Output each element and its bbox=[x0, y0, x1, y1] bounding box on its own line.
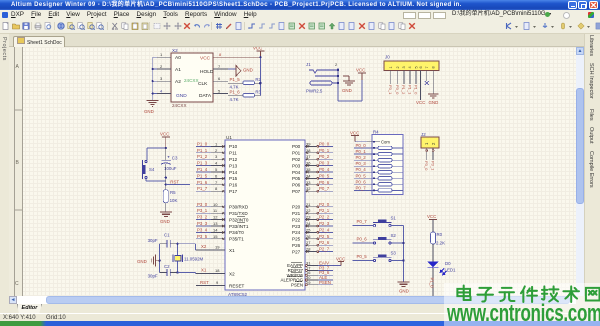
svg-text:P1_0: P1_0 bbox=[413, 85, 418, 95]
svg-text:A2: A2 bbox=[175, 79, 181, 85]
power GND (X2 HOLD pin7) bbox=[228, 68, 236, 70]
resistor R5 10K bbox=[163, 190, 177, 203]
svg-text:P22: P22 bbox=[292, 217, 301, 222]
svg-text:R5: R5 bbox=[170, 190, 176, 195]
power GND (J0 pin8) bbox=[428, 94, 439, 98]
capacitor C1 30pF bbox=[148, 233, 178, 248]
switch S2 with net label P0_6 bbox=[353, 233, 404, 244]
svg-text:VCC: VCC bbox=[350, 131, 359, 136]
svg-text:2: 2 bbox=[396, 66, 400, 68]
svg-text:1: 1 bbox=[160, 52, 163, 57]
svg-text:P3_4: P3_4 bbox=[197, 227, 208, 232]
svg-text:24CXX: 24CXX bbox=[184, 78, 199, 83]
svg-text:P23: P23 bbox=[292, 224, 301, 229]
svg-text:7: 7 bbox=[215, 180, 218, 185]
U1 active-low overlines bbox=[237, 216, 302, 281]
wire below LED with net label bbox=[432, 268, 434, 296]
svg-text:P3_1: P3_1 bbox=[197, 208, 208, 213]
switch S4 bbox=[143, 160, 166, 181]
resistor network R4 bbox=[367, 130, 403, 195]
svg-text:6: 6 bbox=[218, 76, 221, 81]
svg-text:X2: X2 bbox=[229, 271, 235, 276]
wire crystal to X2 pin bbox=[178, 273, 197, 274]
svg-text:VCC: VCC bbox=[427, 214, 436, 219]
svg-text:PSEN: PSEN bbox=[291, 282, 303, 287]
svg-text:6: 6 bbox=[419, 66, 423, 68]
svg-text:P30/RXD: P30/RXD bbox=[229, 205, 249, 210]
capacitor C3 100uF bbox=[161, 148, 178, 190]
svg-text:P0_5: P0_5 bbox=[357, 254, 368, 259]
switch S3 with net label P0_5 bbox=[353, 251, 404, 262]
svg-text:1: 1 bbox=[215, 141, 218, 146]
resistor R2 4.7K bbox=[228, 77, 262, 90]
svg-text:P2_6: P2_6 bbox=[319, 240, 330, 245]
svg-text:12: 12 bbox=[213, 215, 218, 220]
svg-text:4: 4 bbox=[215, 161, 218, 166]
svg-text:P33/INT1: P33/INT1 bbox=[229, 224, 249, 229]
svg-text:P3_1: P3_1 bbox=[388, 85, 393, 95]
MCU U1 AT89C52 bbox=[225, 135, 305, 297]
svg-text:P2_4: P2_4 bbox=[319, 227, 330, 232]
svg-text:P03: P03 bbox=[292, 163, 301, 168]
svg-text:11.0592M: 11.0592M bbox=[184, 256, 204, 261]
svg-text:P1_1: P1_1 bbox=[197, 148, 208, 153]
svg-text:P0_5: P0_5 bbox=[319, 173, 330, 178]
svg-text:P04: P04 bbox=[292, 170, 301, 175]
svg-text:Com: Com bbox=[381, 140, 390, 145]
svg-text:P35/T1: P35/T1 bbox=[229, 237, 244, 242]
svg-text:S1: S1 bbox=[391, 216, 397, 221]
svg-text:P3_3: P3_3 bbox=[197, 221, 208, 226]
U1 pin edge markers bbox=[222, 145, 308, 253]
svg-text:VCC: VCC bbox=[356, 68, 365, 73]
svg-text:P1_5: P1_5 bbox=[230, 77, 241, 82]
wire LED branch bbox=[432, 220, 434, 233]
svg-text:30pF: 30pF bbox=[148, 238, 158, 243]
svg-text:9: 9 bbox=[216, 280, 219, 285]
svg-text:4.7K: 4.7K bbox=[230, 97, 239, 102]
svg-text:P11: P11 bbox=[229, 151, 237, 156]
svg-text:P0_3: P0_3 bbox=[356, 161, 367, 166]
svg-text:P3_5: P3_5 bbox=[197, 234, 208, 239]
svg-text:5: 5 bbox=[215, 167, 218, 172]
svg-text:GND: GND bbox=[137, 259, 147, 264]
svg-text:P00: P00 bbox=[292, 144, 301, 149]
svg-text:P0_0: P0_0 bbox=[319, 141, 330, 146]
U1 pin 19 X1 bbox=[196, 249, 225, 251]
svg-text:P0_1: P0_1 bbox=[319, 148, 330, 153]
svg-text:P2_2: P2_2 bbox=[319, 215, 330, 220]
svg-text:3: 3 bbox=[215, 154, 218, 159]
R4 resistor elements and net labels P0_0-P0_7 bbox=[354, 146, 403, 192]
power VCC (R4 Com) bbox=[351, 136, 359, 142]
svg-text:P1_3: P1_3 bbox=[197, 161, 208, 166]
svg-text:GND: GND bbox=[144, 109, 154, 114]
power VCC (EA pin) bbox=[333, 265, 341, 267]
svg-text:P3_1: P3_1 bbox=[430, 161, 435, 171]
svg-text:15: 15 bbox=[213, 234, 218, 239]
resistor R0 2.2K bbox=[431, 232, 446, 246]
svg-text:14: 14 bbox=[213, 227, 218, 232]
svg-text:5: 5 bbox=[218, 88, 221, 93]
svg-text:4: 4 bbox=[408, 66, 412, 68]
svg-text:P2_5: P2_5 bbox=[319, 234, 330, 239]
svg-text:VCC: VCC bbox=[253, 47, 262, 51]
svg-text:6: 6 bbox=[215, 173, 218, 178]
svg-text:J1: J1 bbox=[306, 62, 311, 67]
svg-text:P3_0: P3_0 bbox=[197, 202, 208, 207]
svg-text:P3_0: P3_0 bbox=[424, 161, 429, 171]
svg-text:P21: P21 bbox=[292, 211, 301, 216]
svg-text:2.2K: 2.2K bbox=[436, 241, 445, 246]
svg-text:R0: R0 bbox=[437, 232, 443, 237]
svg-text:P1_0: P1_0 bbox=[197, 141, 208, 146]
svg-text:P0_4: P0_4 bbox=[356, 167, 367, 172]
svg-text:VCC: VCC bbox=[160, 132, 169, 137]
svg-text:PWR2.5: PWR2.5 bbox=[306, 89, 323, 94]
svg-text:P1_1: P1_1 bbox=[407, 85, 412, 95]
svg-text:P0_6: P0_6 bbox=[356, 179, 367, 184]
U1 pins 39-32 P00-P07 with net labels P0_0-P0_7 bbox=[305, 146, 318, 191]
svg-text:P3_0: P3_0 bbox=[395, 85, 400, 95]
svg-text:8: 8 bbox=[215, 186, 218, 191]
svg-text:P1_5: P1_5 bbox=[197, 173, 208, 178]
svg-text:P0_7: P0_7 bbox=[319, 186, 330, 191]
svg-text:PSEN: PSEN bbox=[319, 280, 331, 285]
svg-text:P2_1: P2_1 bbox=[319, 208, 330, 213]
ground GND (R5) bbox=[165, 203, 167, 212]
svg-text:P01: P01 bbox=[292, 151, 301, 156]
svg-text:P12: P12 bbox=[229, 157, 238, 162]
wire reset top bbox=[147, 148, 166, 160]
svg-text:P34/T0: P34/T0 bbox=[229, 230, 244, 235]
svg-text:19: 19 bbox=[215, 245, 220, 250]
svg-text:X1: X1 bbox=[201, 268, 207, 273]
J0 pin wires and net labels bbox=[391, 71, 434, 101]
svg-text:P05: P05 bbox=[292, 176, 301, 181]
svg-text:P0_0: P0_0 bbox=[356, 143, 367, 148]
svg-text:X2: X2 bbox=[201, 244, 207, 249]
svg-text:10K: 10K bbox=[170, 198, 178, 203]
svg-text:7: 7 bbox=[425, 66, 429, 68]
svg-text:C2: C2 bbox=[164, 264, 170, 269]
wire crystal left bus bbox=[159, 244, 161, 273]
svg-text:P0_6: P0_6 bbox=[357, 236, 368, 241]
svg-text:P1_4: P1_4 bbox=[197, 167, 208, 172]
svg-text:P0_2: P0_2 bbox=[319, 154, 330, 159]
svg-text:P2_7: P2_7 bbox=[319, 247, 330, 252]
svg-text:24CXX: 24CXX bbox=[172, 103, 187, 108]
svg-text:3: 3 bbox=[160, 76, 163, 81]
svg-text:S4: S4 bbox=[149, 167, 155, 172]
svg-text:GND: GND bbox=[160, 219, 170, 224]
svg-text:P0_4: P0_4 bbox=[319, 167, 330, 172]
X2 pins 1-4 bbox=[157, 57, 171, 93]
svg-text:P0_2: P0_2 bbox=[356, 155, 367, 160]
svg-text:2: 2 bbox=[215, 148, 218, 153]
svg-text:P0_7: P0_7 bbox=[357, 219, 368, 224]
svg-text:P1_6: P1_6 bbox=[230, 90, 241, 95]
svg-text:P1_7: P1_7 bbox=[197, 186, 208, 191]
svg-text:D0: D0 bbox=[445, 261, 451, 266]
svg-text:P17: P17 bbox=[229, 189, 238, 194]
svg-text:P27: P27 bbox=[292, 249, 301, 254]
U1 pins 10-15 P30-P35 with net labels P3_0-P3_5 bbox=[211, 207, 225, 239]
svg-text:P07: P07 bbox=[292, 189, 301, 194]
crystal Y1 11.0592M bbox=[173, 244, 203, 273]
switch S1 with net label P0_7 bbox=[353, 216, 404, 227]
svg-text:P20: P20 bbox=[292, 205, 301, 210]
svg-text:R4: R4 bbox=[373, 130, 379, 135]
svg-text:P14: P14 bbox=[229, 170, 238, 175]
svg-text:LED1: LED1 bbox=[445, 268, 457, 273]
svg-text:8: 8 bbox=[219, 52, 222, 57]
svg-text:P1_0: P1_0 bbox=[430, 278, 435, 289]
svg-text:VCC: VCC bbox=[200, 56, 211, 62]
wire crystal to X1 pin bbox=[178, 244, 197, 250]
svg-text:S3: S3 bbox=[391, 251, 397, 256]
connector J0 8-pin header bbox=[384, 55, 439, 71]
svg-text:P1_2: P1_2 bbox=[401, 85, 406, 95]
svg-text:P31/TXD: P31/TXD bbox=[229, 211, 248, 216]
svg-text:P0_5: P0_5 bbox=[356, 173, 367, 178]
U1 pins 1-8 P10-P17 with net labels P1_0-P1_7 bbox=[211, 146, 225, 191]
power VCC (J1) bbox=[358, 73, 366, 80]
svg-text:P1_2: P1_2 bbox=[197, 154, 208, 159]
net label RST bbox=[165, 176, 167, 178]
svg-text:P13: P13 bbox=[229, 163, 238, 168]
power VCC (reset circuit) bbox=[162, 137, 170, 148]
svg-text:C1: C1 bbox=[164, 233, 170, 238]
resistor R3 4.7K bbox=[228, 90, 262, 103]
svg-text:J0: J0 bbox=[385, 55, 390, 60]
svg-text:P25: P25 bbox=[292, 237, 301, 242]
svg-text:5: 5 bbox=[414, 66, 418, 68]
svg-text:P2_3: P2_3 bbox=[319, 221, 330, 226]
svg-text:X2: X2 bbox=[172, 48, 178, 53]
svg-text:VCC: VCC bbox=[416, 100, 425, 105]
svg-text:P0_6: P0_6 bbox=[319, 180, 330, 185]
svg-text:U1: U1 bbox=[226, 135, 232, 140]
wire J1 to VCC bbox=[338, 68, 362, 101]
ground GND (crystal) bbox=[151, 255, 159, 267]
ground GND (buttons) bbox=[398, 282, 410, 286]
svg-text:GND: GND bbox=[176, 93, 187, 99]
svg-text:2: 2 bbox=[160, 64, 163, 69]
power VCC (LED branch) bbox=[429, 219, 437, 221]
U1 pins 21-28 P20-P27 with net labels P2_0-P2_7 bbox=[305, 207, 318, 252]
svg-text:GND: GND bbox=[243, 68, 253, 73]
U1 pin 9 RESET bbox=[196, 285, 225, 287]
svg-text:P1_6: P1_6 bbox=[197, 180, 208, 185]
svg-text:13: 13 bbox=[213, 221, 218, 226]
wire X2 left bus bbox=[153, 57, 157, 100]
svg-text:C: C bbox=[15, 281, 19, 287]
svg-text:P2_0: P2_0 bbox=[319, 202, 330, 207]
svg-text:P0_7: P0_7 bbox=[356, 185, 367, 190]
wire X2 right bus to VCC bbox=[259, 57, 261, 95]
svg-text:RESET: RESET bbox=[229, 283, 245, 288]
X2 pins 5-8 bbox=[213, 69, 228, 94]
svg-text:C3: C3 bbox=[172, 156, 178, 161]
svg-text:DATA: DATA bbox=[199, 93, 212, 99]
svg-text:CLK: CLK bbox=[198, 81, 208, 87]
svg-text:18: 18 bbox=[215, 268, 220, 273]
U1 pins 31,17,16,30,29 EA/RD/WR/ALE/PSEN bbox=[305, 266, 318, 285]
svg-text:GND: GND bbox=[399, 289, 409, 294]
svg-text:P15: P15 bbox=[229, 176, 238, 181]
svg-text:P0_1: P0_1 bbox=[356, 149, 367, 154]
svg-text:P32/INT0: P32/INT0 bbox=[229, 217, 249, 222]
connector J2 2-pin header bbox=[421, 132, 439, 171]
svg-text:P10: P10 bbox=[229, 144, 238, 149]
svg-text:RST: RST bbox=[200, 280, 209, 285]
svg-text:P0_3: P0_3 bbox=[319, 161, 330, 166]
svg-text:P26: P26 bbox=[292, 243, 301, 248]
svg-text:A1: A1 bbox=[175, 67, 181, 73]
svg-text:P02: P02 bbox=[292, 157, 301, 162]
svg-text:3: 3 bbox=[402, 66, 406, 68]
svg-text:30pF: 30pF bbox=[148, 274, 158, 279]
no-connect X on J0 pin7 bbox=[425, 81, 429, 85]
svg-text:GND: GND bbox=[429, 100, 439, 105]
power VCC (X2 pin8) bbox=[228, 56, 260, 58]
svg-text:10: 10 bbox=[213, 202, 218, 207]
svg-text:RST: RST bbox=[170, 179, 179, 184]
svg-text:11: 11 bbox=[213, 208, 218, 213]
svg-text:4: 4 bbox=[160, 88, 163, 93]
svg-text:VCC: VCC bbox=[336, 257, 345, 262]
svg-text:1: 1 bbox=[389, 66, 393, 68]
capacitor C2 30pF bbox=[148, 264, 178, 279]
wire buttons common to ground bbox=[403, 226, 405, 282]
svg-text:8: 8 bbox=[431, 66, 435, 68]
power GND (J1) bbox=[343, 76, 355, 85]
svg-text:P3_2: P3_2 bbox=[197, 215, 208, 220]
svg-text:7: 7 bbox=[218, 64, 221, 69]
IC X2 24CXX bbox=[171, 48, 214, 108]
U1 pin 18 X2 bbox=[196, 273, 225, 275]
svg-text:HOLD: HOLD bbox=[200, 69, 214, 75]
connector J1 PWR2.5 power jack bbox=[306, 62, 338, 94]
svg-text:X1: X1 bbox=[229, 248, 235, 253]
svg-text:P16: P16 bbox=[229, 183, 238, 188]
svg-text:2: 2 bbox=[335, 62, 338, 67]
svg-text:S2: S2 bbox=[391, 233, 397, 238]
svg-text:P24: P24 bbox=[292, 230, 301, 235]
svg-text:P06: P06 bbox=[292, 183, 301, 188]
LED D0 LED1 bbox=[427, 261, 456, 275]
svg-text:GND: GND bbox=[342, 88, 352, 93]
svg-text:A0: A0 bbox=[175, 55, 181, 61]
svg-text:J2: J2 bbox=[421, 132, 426, 137]
ground GND below X2 bbox=[147, 101, 159, 107]
